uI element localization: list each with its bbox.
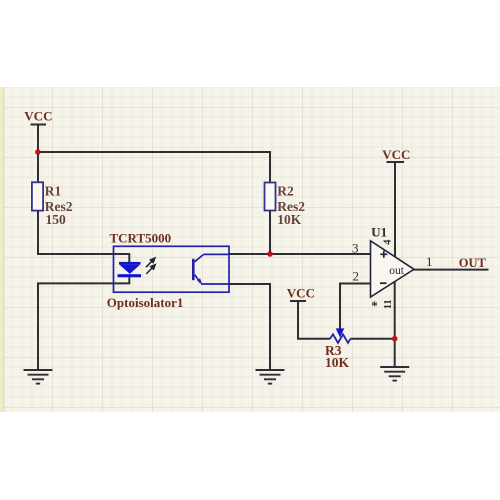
minus mark (380, 282, 387, 284)
ground (left) (24, 370, 53, 384)
plus mark (380, 251, 387, 258)
svg-text:R2: R2 (277, 184, 294, 199)
node junction R3/V- (392, 336, 398, 342)
svg-text:*: * (371, 298, 378, 313)
svg-text:R1: R1 (45, 184, 62, 199)
svg-text:10K: 10K (325, 355, 350, 370)
wire emitter to ground (229, 284, 270, 370)
node junction top-left (35, 149, 41, 155)
LED of optoisolator (118, 262, 142, 277)
ground (right) (380, 367, 409, 381)
svg-text:Optoisolator1: Optoisolator1 (107, 295, 184, 310)
wire collector node to opamp pin3 (229, 253, 371, 255)
pin 4 number (rotated) (383, 239, 394, 245)
power symbol VCC (R3) (290, 301, 330, 339)
svg-text:1: 1 (426, 254, 433, 269)
svg-text:VCC: VCC (382, 147, 410, 162)
wire R2 bottom to node (269, 211, 271, 255)
phototransistor (192, 254, 229, 284)
sheet left edge strip (0, 87, 3, 412)
svg-text:11: 11 (383, 299, 394, 309)
sheet background (0, 87, 500, 412)
svg-text:VCC: VCC (287, 286, 315, 301)
svg-text:2: 2 (353, 269, 360, 284)
wire top rail (38, 152, 270, 183)
power symbol VCC (op-amp) (387, 162, 405, 258)
svg-text:150: 150 (46, 212, 67, 227)
svg-text:VCC: VCC (24, 109, 52, 124)
svg-text:out: out (389, 265, 405, 277)
svg-text:TCRT5000: TCRT5000 (110, 230, 172, 245)
ground (middle) (256, 370, 285, 384)
pin 11 number (rotated) (383, 299, 394, 309)
wire output (413, 269, 489, 271)
resistor R2 (265, 183, 276, 211)
op-amp U1 (371, 241, 415, 297)
wire pin2 from R3 wiper (340, 284, 371, 329)
wire R1 bottom to LED anode (38, 211, 129, 263)
power symbol VCC (left) (31, 125, 47, 183)
optoisolator box U TCRT5000 (114, 246, 230, 292)
wire LED cathode to ground run (38, 277, 129, 370)
svg-text:10K: 10K (277, 212, 302, 227)
svg-text:3: 3 (352, 241, 359, 256)
svg-text:U1: U1 (371, 225, 387, 240)
node junction at R2 leg (267, 251, 273, 257)
svg-text:OUT: OUT (459, 256, 487, 270)
potentiometer R3 (330, 334, 351, 343)
svg-text:4: 4 (383, 239, 394, 245)
wire R3 right to V- run (351, 338, 395, 340)
resistor R1 (32, 182, 43, 210)
emission arrows (146, 258, 155, 274)
wire opamp V- down to ground (394, 280, 396, 367)
